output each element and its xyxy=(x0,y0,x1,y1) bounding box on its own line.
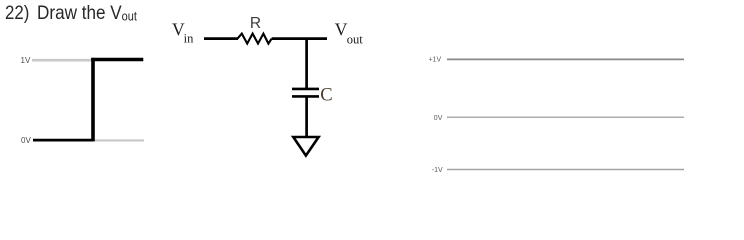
input waveform 0V label xyxy=(21,136,31,145)
output -1V axis line xyxy=(447,169,684,171)
output axis -1V label xyxy=(432,167,443,174)
svg-text:-1V: -1V xyxy=(432,167,443,174)
svg-text:in: in xyxy=(184,32,194,46)
output axis +1V label xyxy=(429,57,442,64)
node Vin label xyxy=(172,19,194,45)
output axis 0V label xyxy=(434,115,443,122)
input step waveform 0V segment xyxy=(33,139,93,142)
resistor R xyxy=(238,34,272,44)
input step waveform rising edge xyxy=(91,58,95,141)
title: 22) Draw the Vout xyxy=(5,3,33,23)
svg-text:0V: 0V xyxy=(21,136,31,145)
wire capacitor to ground xyxy=(305,96,308,137)
output +1V axis line xyxy=(447,58,684,60)
svg-text:1V: 1V xyxy=(21,56,31,65)
node Vout label xyxy=(335,20,363,47)
svg-text:out: out xyxy=(347,32,364,46)
output 0V axis line xyxy=(447,116,684,118)
input 1V axis line (gray) xyxy=(32,59,91,62)
svg-text:+1V: +1V xyxy=(429,57,442,64)
wire resistor to Vout node xyxy=(272,37,327,40)
input waveform 1V label xyxy=(21,56,31,65)
input 0V axis line (gray) xyxy=(94,139,145,141)
ground xyxy=(293,137,318,156)
resistor R value label xyxy=(250,15,261,32)
capacitor C xyxy=(292,89,319,97)
wire node down to capacitor xyxy=(305,39,308,88)
input step waveform 1V segment xyxy=(91,58,143,62)
capacitor C value label xyxy=(320,85,332,105)
wire Vin to resistor xyxy=(204,37,238,40)
svg-text:R: R xyxy=(250,15,261,32)
svg-text:0V: 0V xyxy=(434,115,443,122)
svg-text:C: C xyxy=(320,85,332,105)
